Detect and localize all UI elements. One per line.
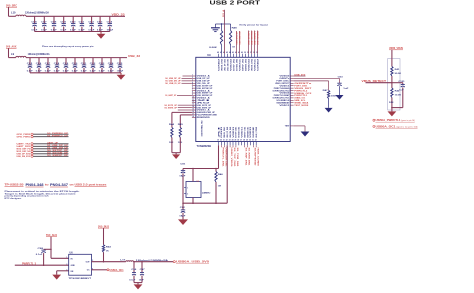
- svg-text:32: 32: [255, 140, 257, 142]
- svg-text:S0_SSRX_UP: S0_SSRX_UP: [164, 107, 177, 109]
- wire USB_DN1_DP: [236, 31, 238, 54]
- wire pin3: [57, 270, 69, 272]
- svg-text:USB_SSTXP1: USB_SSTXP1: [249, 30, 251, 45]
- wire: [172, 111, 192, 113]
- wire: [178, 107, 192, 109]
- svg-text:USB_DM_DN2: USB_DM_DN2: [227, 59, 229, 71]
- resistor R41: [391, 67, 393, 77]
- ground: [388, 111, 397, 116]
- wire: [182, 82, 192, 84]
- pin left 2: [192, 77, 196, 79]
- svg-text:SSRXM_DN1: SSRXM_DN1: [247, 127, 249, 138]
- pin bottom 21: [223, 142, 225, 146]
- pin bottom 24: [232, 142, 234, 146]
- svg-text:23: 23: [229, 140, 231, 142]
- pin left 16: [192, 111, 196, 113]
- resistor R43: [102, 245, 104, 253]
- ground: [301, 132, 310, 137]
- pin top 40: [242, 54, 244, 58]
- svg-text:SSTXP_DN1: SSTXP_DN1: [236, 127, 238, 138]
- pin left 5: [192, 85, 196, 87]
- ground: [52, 275, 61, 280]
- wire: [134, 282, 142, 284]
- svg-text:10.0K: 10.0K: [395, 95, 402, 97]
- pin right 29: [290, 87, 293, 89]
- svg-text:SSRXP_DN1: SSRXP_DN1: [244, 127, 246, 138]
- wire power bus VDD_33: [26, 15, 125, 17]
- svg-text:OVERCUR_DN1: OVERCUR_DN1: [224, 148, 226, 168]
- svg-text:15: 15: [192, 109, 194, 111]
- pin left 1: [192, 75, 196, 77]
- net label SS_RXM_DN1: [247, 145, 249, 147]
- svg-text:S0_PWRFLT_UP: S0_PWRFLT_UP: [47, 135, 69, 137]
- svg-text:SUSPEND: SUSPEND: [253, 126, 255, 138]
- svg-text:USB_DM_DN1: USB_DM_DN1: [230, 127, 232, 138]
- net label USB0A_USB_5V0: [173, 261, 175, 263]
- wire: [215, 23, 230, 25]
- wire: [103, 228, 105, 245]
- wire OC: [92, 269, 108, 271]
- DNI box: [388, 59, 400, 110]
- wire: [180, 114, 192, 116]
- wire ground bus row1: [35, 31, 110, 33]
- svg-text:1M: 1M: [218, 186, 221, 188]
- svg-text:S0_UART_UP: S0_UART_UP: [165, 94, 176, 97]
- svg-text:27: 27: [240, 140, 242, 142]
- svg-text:VDD33: VDD33: [248, 59, 250, 71]
- pin right 28: [290, 90, 293, 92]
- svg-text:29: 29: [246, 140, 248, 142]
- svg-text:1: 1: [66, 257, 67, 259]
- pin left 12: [192, 102, 196, 104]
- net label OVERCUR_DN1: [223, 145, 225, 147]
- wire: [294, 80, 329, 82]
- pin top 36: [254, 54, 256, 58]
- svg-text:U9: U9: [207, 53, 211, 57]
- svg-text:1K: 1K: [232, 47, 235, 49]
- wire: [33, 150, 68, 152]
- svg-text:HUB_CONN: HUB_CONN: [256, 126, 258, 138]
- pin left 11: [192, 99, 196, 101]
- svg-text:ETC designer.: ETC designer.: [5, 197, 23, 200]
- pin bottom 29: [247, 142, 249, 146]
- wire ground bus row2: [30, 72, 121, 74]
- svg-text:24MHz: 24MHz: [202, 191, 212, 194]
- svg-text:11: 11: [192, 99, 194, 101]
- svg-text:3: 3: [66, 269, 67, 271]
- pin left 14: [192, 107, 196, 109]
- svg-text:100K: 100K: [331, 96, 337, 98]
- net label USB_5V0: [294, 75, 306, 77]
- svg-text:USB_SSTXM1: USB_SSTXM1: [252, 30, 254, 45]
- svg-text:SS_TXP_DN1: SS_TXP_DN1: [233, 148, 235, 168]
- pin left 8: [192, 92, 196, 94]
- svg-text:VDD33: VDD33: [233, 127, 235, 138]
- pin top 42: [236, 54, 238, 58]
- pin top 46: [224, 54, 226, 58]
- svg-text:VBUS_DN2: VBUS_DN2: [221, 59, 223, 71]
- pin left 17: [192, 114, 196, 116]
- svg-text:31: 31: [252, 140, 254, 142]
- svg-text:HUB_CONN: HUB_CONN: [256, 148, 258, 167]
- wire: [50, 237, 52, 259]
- svg-text:S0_SSRXP_UP: S0_SSRXP_UP: [47, 155, 69, 157]
- net label SUSPEND: [252, 145, 254, 147]
- svg-text:120ohm@100MHz/3A: 120ohm@100MHz/3A: [25, 11, 49, 15]
- wire: [392, 107, 403, 109]
- svg-text:PN04-347: PN04-347: [50, 182, 68, 187]
- svg-text:SSTXM_DN2: SSTXM_DN2: [236, 59, 238, 71]
- svg-text:18pF: 18pF: [179, 176, 186, 178]
- wire: [103, 252, 105, 261]
- pin left 18: [192, 116, 196, 118]
- wire: [183, 75, 192, 77]
- ground: [100, 32, 102, 34]
- svg-text:VDD33: VDD33: [230, 59, 232, 71]
- svg-text:USB0A_OC1: USB0A_OC1: [110, 269, 125, 272]
- wire pin2: [15, 264, 69, 266]
- svg-text:1: 1: [187, 187, 188, 189]
- svg-text:5V0_A: 5V0_A: [222, 9, 225, 17]
- svg-text:SSRXM_DN2: SSRXM_DN2: [245, 59, 247, 71]
- pin bottom 25: [235, 142, 237, 146]
- svg-text:10uF: 10uF: [139, 279, 145, 281]
- ground: [211, 27, 220, 29]
- svg-text:25: 25: [235, 140, 237, 142]
- svg-text:20: 20: [220, 140, 222, 142]
- pin top 43: [233, 54, 235, 58]
- ground: [336, 95, 344, 100]
- pin top 37: [251, 54, 253, 58]
- net label USB0A_OC1: [107, 269, 109, 271]
- wire: [177, 94, 192, 96]
- pin top 45: [227, 54, 229, 58]
- svg-text:USB_DN1_DP: USB_DN1_DP: [237, 31, 239, 45]
- svg-text:TUSB8020B: TUSB8020B: [197, 144, 212, 148]
- svg-text:USB 2 PORT: USB 2 PORT: [210, 1, 261, 7]
- svg-text:Place one decoupling cap at ev: Place one decoupling cap at every power …: [42, 45, 94, 48]
- pin right 22: [290, 104, 293, 106]
- pin bottom 23: [229, 142, 231, 146]
- capacitor C97: [141, 261, 143, 263]
- svg-text:VBUS_DN1: VBUS_DN1: [224, 127, 226, 138]
- pin left 15: [192, 109, 196, 111]
- svg-text:PN04-348: PN04-348: [26, 182, 45, 187]
- wire: [391, 50, 393, 67]
- wire USB_SSRXP1: [254, 31, 256, 54]
- pin top 44: [230, 54, 232, 58]
- svg-text:S0_USB_ID_UP: S0_USB_ID_UP: [165, 83, 181, 85]
- pin right 34: [290, 75, 293, 77]
- net label SS_RXP_DN1: [244, 145, 246, 147]
- svg-text:19: 19: [217, 140, 219, 142]
- pin left 3: [192, 80, 196, 82]
- wire: [182, 77, 192, 79]
- wire USB_SSTXM1: [251, 31, 253, 54]
- svg-text:SSRXP_DN2: SSRXP_DN2: [242, 59, 244, 71]
- pin bottom 30: [249, 142, 251, 146]
- wire power bus USB_33: [26, 57, 127, 59]
- svg-text:12: 12: [192, 101, 194, 103]
- wire XI: [218, 145, 220, 168]
- svg-text:TEST_MODE: TEST_MODE: [294, 105, 309, 107]
- wire: [294, 125, 305, 127]
- pin right 24: [290, 99, 293, 101]
- pin right 26: [290, 94, 293, 96]
- svg-text:SS_TXM_DN1: SS_TXM_DN1: [236, 148, 238, 168]
- svg-text:USB_33: USB_33: [128, 54, 140, 58]
- svg-text:VDD33: VDD33: [250, 127, 252, 138]
- svg-text:VDD_33: VDD_33: [112, 12, 126, 16]
- svg-text:16: 16: [192, 111, 194, 113]
- wire pin1: [51, 257, 69, 259]
- pin bottom 19: [218, 142, 220, 146]
- svg-text:SSTXP_DN2: SSTXP_DN2: [233, 59, 235, 71]
- svg-text:L10: L10: [11, 11, 16, 15]
- wire: [178, 109, 192, 111]
- ground: [325, 108, 333, 113]
- svg-text:USB_DP_DN1: USB_DP_DN1: [227, 127, 229, 138]
- ground: [172, 154, 180, 159]
- svg-text:GPIO_PWR1: GPIO_PWR1: [17, 137, 31, 139]
- pin bottom 26: [238, 142, 240, 146]
- svg-text:2: 2: [187, 193, 188, 195]
- wire: [33, 155, 68, 157]
- wire: [33, 136, 68, 138]
- wire: [134, 261, 174, 263]
- pin right TEST: [290, 125, 293, 127]
- svg-text:USB_SSRXP1: USB_SSRXP1: [255, 30, 257, 45]
- svg-text:USB_DN1_DM: USB_DN1_DM: [240, 31, 242, 44]
- wire: [33, 153, 68, 155]
- wire XO: [183, 202, 227, 204]
- svg-text:(goes to pin 13): (goes to pin 13): [397, 125, 418, 128]
- wire USB_SSTXP1: [248, 31, 250, 54]
- svg-text:18: 18: [192, 116, 194, 118]
- net label USB0A_PWRCTL1: [373, 119, 375, 121]
- svg-text:GND/THERMAL_PAD: GND/THERMAL_PAD: [201, 120, 204, 137]
- resistor R46: [215, 169, 217, 172]
- svg-text:5V0_AUX: 5V0_AUX: [6, 44, 17, 48]
- crystal Y1: [186, 182, 201, 198]
- svg-text:USB_DM_EX2: USB_DM_EX2: [17, 156, 31, 158]
- capacitor C96: [133, 261, 135, 263]
- svg-text:30: 30: [249, 140, 251, 142]
- pin bottom 22: [226, 142, 228, 146]
- wire: [392, 82, 403, 84]
- svg-text:13: 13: [192, 104, 194, 106]
- svg-text:1uF: 1uF: [343, 88, 349, 90]
- pin top 48: [218, 54, 220, 58]
- wire USB_DN1_DM: [239, 31, 241, 54]
- pin left 9: [192, 94, 196, 96]
- svg-text:28: 28: [243, 140, 245, 142]
- wire: [391, 98, 393, 112]
- wire: [294, 77, 340, 79]
- svg-text:0.1uF: 0.1uF: [129, 279, 136, 281]
- pin bottom 27: [241, 142, 243, 146]
- svg-text:TPS2051BDBVT: TPS2051BDBVT: [69, 278, 92, 280]
- svg-text:VBUS_DN1: VBUS_DN1: [251, 59, 253, 71]
- pin right 31: [290, 82, 293, 84]
- svg-text:0.1uF: 0.1uF: [36, 254, 43, 256]
- pin top 38: [248, 54, 250, 58]
- wire OUT: [92, 261, 126, 263]
- net label HUB_CONN: [255, 145, 257, 147]
- svg-text:8.06K: 8.06K: [209, 47, 217, 49]
- wire: [33, 148, 68, 150]
- pin left 13: [192, 104, 196, 106]
- pin top 47: [221, 54, 223, 58]
- svg-text:120ohm@100MHz/3A: 120ohm@100MHz/3A: [28, 52, 50, 56]
- pin bottom 31: [252, 142, 254, 146]
- pin top 41: [239, 54, 241, 58]
- wire: [182, 80, 192, 82]
- svg-text:1K: 1K: [106, 251, 109, 253]
- svg-text:USB0A_PWRCTL1: USB0A_PWRCTL1: [376, 119, 402, 122]
- svg-text:17: 17: [192, 113, 194, 115]
- resistor R50 8.06K: [221, 23, 222, 24]
- net label USB0A_OC1: [373, 125, 375, 127]
- svg-text:(goes to pin 14): (goes to pin 14): [401, 119, 415, 122]
- ground: [120, 73, 122, 75]
- svg-text:Verify pinout for layout: Verify pinout for layout: [239, 24, 268, 27]
- svg-text:26: 26: [237, 140, 239, 142]
- svg-text:39: 39: [244, 52, 246, 54]
- wire: [366, 82, 392, 84]
- wire: [172, 152, 180, 154]
- wire: [192, 169, 194, 182]
- pin left 7: [192, 90, 196, 92]
- svg-text:USB_5V0: USB_5V0: [294, 74, 306, 76]
- svg-text:PWRCTL_DN1: PWRCTL_DN1: [222, 148, 224, 168]
- pin top 39: [245, 54, 247, 58]
- svg-text:SS_RXM_DN1: SS_RXM_DN1: [248, 148, 250, 167]
- pin bottom 20: [220, 142, 222, 146]
- resistor R42: [391, 88, 393, 98]
- wire VBUS: [224, 10, 226, 54]
- svg-text:USB 2.0 port traces: USB 2.0 port traces: [75, 184, 108, 187]
- ground: [134, 284, 143, 289]
- net label SS_TXP_DN1: [232, 145, 234, 147]
- svg-text:RESERVED: RESERVED: [197, 117, 211, 119]
- svg-text:10: 10: [192, 96, 194, 98]
- svg-text:2: 2: [66, 264, 67, 266]
- pin left 6: [192, 87, 196, 89]
- svg-text:VDD11: VDD11: [239, 59, 241, 71]
- wire: [33, 145, 68, 147]
- pin top 35: [257, 54, 259, 58]
- pin right 32: [290, 80, 293, 82]
- net label USB0_VBUS: [229, 145, 231, 147]
- svg-text:SS_RXP_DN1: SS_RXP_DN1: [245, 148, 247, 167]
- net label PWRCTL_DN1: [220, 145, 222, 147]
- svg-text:GND: GND: [71, 265, 76, 267]
- pin right 33: [290, 77, 293, 79]
- svg-text:SSTXM_DN1: SSTXM_DN1: [239, 127, 241, 138]
- svg-text:VDD11: VDD11: [242, 127, 244, 138]
- svg-text:TP-USB2-S0: TP-USB2-S0: [5, 184, 25, 187]
- svg-text:USB_DP_DN2: USB_DP_DN2: [224, 59, 226, 71]
- net label SS_TXM_DN1: [235, 145, 237, 147]
- ground: [178, 219, 188, 225]
- svg-text:VDD11: VDD11: [279, 105, 289, 107]
- svg-text:C101: C101: [398, 81, 405, 83]
- wire: [178, 104, 192, 106]
- wire: [391, 76, 393, 88]
- svg-text:22: 22: [226, 140, 228, 142]
- pin right 30: [290, 85, 293, 87]
- svg-text:SUSPEND: SUSPEND: [253, 148, 255, 167]
- svg-text:USB0A_USB_5V0: USB0A_USB_5V0: [176, 261, 210, 264]
- pin right 25: [290, 97, 293, 99]
- wire USB_SSRXM1: [257, 31, 259, 54]
- svg-text:DNI: DNI: [389, 102, 394, 104]
- wire: [33, 143, 68, 145]
- wire: [8, 7, 10, 16]
- svg-text:USB0A_OC1: USB0A_OC1: [376, 125, 397, 128]
- pin right 23: [290, 102, 293, 104]
- svg-text:90.9K: 90.9K: [395, 73, 402, 75]
- svg-text:21: 21: [223, 140, 225, 142]
- wire: [8, 48, 10, 57]
- pin bottom 32: [255, 142, 257, 146]
- pin left 4: [192, 82, 196, 84]
- svg-text:VDD11: VDD11: [254, 59, 256, 71]
- pin left 10: [192, 97, 196, 99]
- svg-text:USB0_VBUS: USB0_VBUS: [230, 148, 232, 168]
- wire: [33, 133, 68, 135]
- svg-text:18pF: 18pF: [179, 215, 186, 217]
- svg-text:USB_SSRXM1: USB_SSRXM1: [258, 30, 260, 45]
- pin bottom 28: [244, 142, 246, 146]
- pin right 27: [290, 92, 293, 94]
- svg-text:5V0_SRC: 5V0_SRC: [6, 3, 17, 7]
